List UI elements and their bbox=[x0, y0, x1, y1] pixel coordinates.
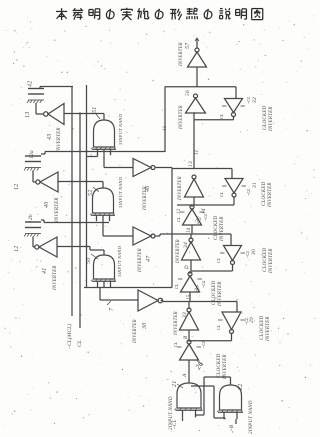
wire y287 rail bbox=[84, 287, 172, 289]
svg-text:INVERTER: INVERTER bbox=[266, 316, 271, 342]
bus ~CL bbox=[66, 87, 73, 350]
svg-text:D: D bbox=[185, 265, 190, 270]
svg-text:INVERTER: INVERTER bbox=[133, 319, 138, 344]
svg-text:11: 11 bbox=[162, 125, 168, 131]
svg-text:A: A bbox=[182, 373, 188, 378]
NAND 51 bbox=[91, 107, 123, 156]
svg-text:CL: CL bbox=[216, 257, 221, 263]
svg-text:CLOCKED: CLOCKED bbox=[263, 105, 268, 130]
svg-text:CL: CL bbox=[174, 283, 179, 289]
node 13 bbox=[25, 112, 31, 118]
svg-text:CLOCKED: CLOCKED bbox=[263, 247, 268, 272]
svg-text:31: 31 bbox=[252, 182, 258, 189]
wire to clkinv29 bbox=[236, 302, 238, 313]
svg-text:42: 42 bbox=[27, 81, 34, 87]
wire NAND51 to inv46 bbox=[104, 155, 133, 167]
inverter 7 bbox=[133, 290, 163, 344]
svg-text:INVERTER: INVERTER bbox=[179, 105, 184, 130]
svg-text:~CL: ~CL bbox=[246, 188, 251, 196]
inverter 58 bbox=[178, 175, 204, 201]
wire resonator12b bottom bbox=[33, 237, 35, 248]
svg-text:INVERTER: INVERTER bbox=[176, 239, 181, 264]
clocked inverter 31 bbox=[219, 179, 273, 209]
clocked inverter 25 bbox=[176, 205, 225, 242]
svg-text:40: 40 bbox=[43, 202, 50, 208]
svg-text:INVERTER: INVERTER bbox=[174, 311, 179, 336]
wire clkinv27 in bbox=[189, 292, 191, 302]
svg-text:CL: CL bbox=[216, 324, 221, 330]
wire inv57 in bbox=[196, 67, 198, 87]
wire y234 rail bbox=[192, 233, 231, 235]
inverter 46 bbox=[133, 159, 155, 212]
wire inv34 out bbox=[190, 234, 192, 239]
node 14 label bbox=[187, 227, 192, 233]
svg-text:22: 22 bbox=[238, 384, 244, 390]
resonator 42 bbox=[27, 81, 45, 103]
inverter 34 bbox=[176, 238, 201, 264]
svg-text:52: 52 bbox=[88, 190, 94, 196]
svg-text:56: 56 bbox=[185, 90, 191, 96]
inverter 33 bbox=[174, 308, 199, 336]
svg-text:2INPUT NAND: 2INPUT NAND bbox=[249, 400, 254, 434]
svg-text:3INPUT NAND: 3INPUT NAND bbox=[118, 176, 123, 208]
svg-text:43: 43 bbox=[46, 134, 53, 140]
wire node11-13 bbox=[193, 120, 195, 169]
NAND 22 bbox=[217, 384, 254, 434]
wire inv7 out bbox=[161, 301, 191, 302]
svg-text:INVERTER: INVERTER bbox=[268, 182, 273, 208]
svg-text:~CL: ~CL bbox=[201, 280, 206, 288]
clocked inverter 30 bbox=[216, 246, 274, 275]
svg-text:~CL(MCL): ~CL(MCL) bbox=[66, 324, 73, 349]
svg-text:CL: CL bbox=[219, 113, 224, 119]
wire NAND52 to inv47 bbox=[103, 221, 133, 236]
svg-text:30: 30 bbox=[251, 249, 257, 256]
wire clkinv27 out bbox=[189, 271, 191, 274]
svg-text:57: 57 bbox=[185, 42, 191, 49]
svg-text:3INPUT NAND: 3INPUT NAND bbox=[118, 113, 123, 145]
svg-text:CL: CL bbox=[219, 191, 224, 197]
svg-text:INVERTER: INVERTER bbox=[179, 42, 184, 67]
svg-text:32: 32 bbox=[252, 97, 258, 104]
svg-text:51: 51 bbox=[92, 107, 98, 113]
wire y247 rail bbox=[57, 245, 104, 250]
wire inv46 out bbox=[156, 168, 173, 169]
svg-text:13: 13 bbox=[25, 112, 31, 118]
wire to clkinv31 bbox=[231, 169, 233, 179]
svg-text:29: 29 bbox=[249, 317, 255, 323]
wire to clkinv30 bbox=[230, 234, 232, 246]
title text 本発明の実施の形態の説明図 bbox=[56, 8, 263, 20]
inverter 41 bbox=[35, 237, 58, 291]
resonator 12a bbox=[24, 150, 41, 170]
svg-text:INVERTER: INVERTER bbox=[143, 186, 148, 211]
wire y151 rail bbox=[45, 150, 165, 152]
svg-text:~CL: ~CL bbox=[203, 213, 208, 221]
wire clkinv26 in bbox=[188, 360, 190, 383]
wire inv47 out bbox=[156, 234, 193, 236]
wire inv57 out bbox=[195, 38, 199, 48]
inverter 47 bbox=[133, 227, 155, 273]
svg-text:12b: 12b bbox=[28, 214, 34, 223]
node B label bbox=[184, 336, 189, 339]
wire y341 rail bbox=[189, 330, 232, 341]
svg-text:CL: CL bbox=[77, 340, 83, 347]
svg-text:CLOCKED: CLOCKED bbox=[214, 215, 219, 240]
wire NAND22 to NAND21 bbox=[196, 377, 231, 417]
wire y181 rail bbox=[58, 180, 103, 182]
svg-text:INVERTER: INVERTER bbox=[269, 106, 274, 132]
bus line3 bbox=[86, 85, 88, 288]
wire node11 vertical bbox=[164, 87, 166, 153]
node 15 label bbox=[187, 294, 192, 300]
wire y168 rail bbox=[172, 168, 232, 170]
svg-text:14: 14 bbox=[202, 208, 207, 214]
svg-text:3INPUT NAND: 3INPUT NAND bbox=[117, 245, 122, 277]
node A label bbox=[182, 373, 188, 378]
svg-text:~CL: ~CL bbox=[201, 340, 206, 348]
svg-text:11: 11 bbox=[194, 149, 200, 155]
svg-text:~CL: ~CL bbox=[173, 420, 178, 429]
node 13 label bbox=[188, 161, 194, 167]
wire NAND51 left input bbox=[87, 154, 98, 157]
svg-text:14: 14 bbox=[187, 227, 192, 233]
inverter 56 bbox=[179, 90, 206, 130]
svg-text:41: 41 bbox=[41, 268, 48, 274]
svg-text:CLOCKED: CLOCKED bbox=[217, 353, 222, 378]
svg-text:INVERTER: INVERTER bbox=[138, 248, 143, 273]
svg-text:B: B bbox=[184, 336, 189, 339]
svg-text:12: 12 bbox=[177, 208, 182, 214]
wire y113 rail bbox=[64, 112, 104, 114]
svg-text:33: 33 bbox=[182, 312, 188, 319]
inverter 43 bbox=[44, 104, 64, 154]
wire resonator12a top bbox=[41, 152, 45, 155]
wire y205 rail bbox=[177, 197, 234, 205]
wire NAND52 out bbox=[102, 182, 104, 189]
svg-text:INVERTER: INVERTER bbox=[53, 265, 58, 291]
svg-text:CLOCKED: CLOCKED bbox=[260, 315, 265, 340]
svg-text:INVERTER: INVERTER bbox=[57, 127, 62, 153]
wire to clkinv32 bbox=[235, 87, 237, 98]
clocked inverter 27 bbox=[174, 272, 223, 307]
svg-text:~CL: ~CL bbox=[245, 250, 250, 258]
svg-text:30: 30 bbox=[142, 323, 148, 330]
wire NAND21 to NAND22 bbox=[191, 386, 225, 419]
svg-text:12: 12 bbox=[14, 184, 20, 190]
wire x172 vertical bbox=[171, 169, 173, 288]
NAND 50 bbox=[86, 245, 122, 287]
node 12' bbox=[14, 246, 20, 252]
wire resonator42 bottom bbox=[36, 103, 43, 114]
clocked inverter 32 bbox=[219, 96, 274, 132]
svg-text:INVERTER: INVERTER bbox=[218, 281, 223, 307]
svg-text:INVERTER: INVERTER bbox=[55, 197, 60, 223]
svg-text:47: 47 bbox=[145, 255, 152, 262]
svg-text:50: 50 bbox=[86, 258, 92, 264]
NAND 52 bbox=[88, 176, 123, 221]
svg-text:INVERTER: INVERTER bbox=[269, 248, 274, 274]
wire resonator12b top bbox=[41, 220, 109, 224]
wire to inverter7 bbox=[100, 288, 138, 301]
wire NAND21 CL input bbox=[173, 417, 183, 429]
svg-text:CL: CL bbox=[173, 341, 178, 347]
clocked inverter 26 bbox=[173, 340, 228, 380]
wire inv33 out bbox=[188, 302, 190, 310]
svg-text:INVERTER: INVERTER bbox=[223, 354, 228, 380]
svg-text:INVERTER: INVERTER bbox=[178, 176, 183, 201]
wire clkinv26 out bbox=[188, 341, 190, 342]
svg-text:CLOCKED: CLOCKED bbox=[262, 181, 267, 206]
designator 7 bbox=[107, 301, 115, 311]
svg-text:~CL: ~CL bbox=[246, 96, 251, 104]
inverter 40 bbox=[36, 172, 60, 223]
resonator 12b bbox=[24, 214, 41, 236]
bus CL bbox=[77, 114, 83, 348]
inverter 57 bbox=[179, 42, 207, 67]
node 11 bbox=[162, 125, 168, 131]
svg-text:21: 21 bbox=[172, 381, 178, 387]
wire NAND22 B input bbox=[230, 419, 236, 431]
wire clkinv25 in bbox=[191, 225, 193, 234]
wire resonator42 to bus bbox=[40, 87, 73, 89]
wire resonator12a bottom bbox=[33, 171, 36, 183]
svg-text:13: 13 bbox=[188, 161, 194, 167]
svg-text:12: 12 bbox=[14, 246, 20, 252]
node 14 labels bbox=[177, 208, 207, 214]
NAND 21 bbox=[169, 381, 203, 430]
node 11 label bbox=[194, 149, 200, 155]
wire y120 rail bbox=[194, 113, 234, 120]
node 12 bbox=[14, 184, 20, 190]
node D label bbox=[185, 265, 190, 270]
svg-text:12a: 12a bbox=[29, 150, 35, 159]
svg-text:15: 15 bbox=[187, 294, 192, 300]
svg-text:CL: CL bbox=[176, 216, 181, 222]
svg-text:INVERTER: INVERTER bbox=[220, 216, 225, 242]
wire y87 rail bbox=[165, 86, 236, 88]
wire NAND51 out bbox=[103, 114, 105, 121]
clocked inverter 29 bbox=[216, 312, 271, 342]
wire y271 rail bbox=[191, 260, 233, 271]
wire y301 rail bbox=[190, 301, 237, 303]
wire clkinv25 out bbox=[191, 205, 193, 207]
svg-text:~B: ~B bbox=[230, 425, 235, 431]
svg-text:34: 34 bbox=[182, 242, 189, 249]
wire NAND50 out bbox=[103, 250, 105, 255]
